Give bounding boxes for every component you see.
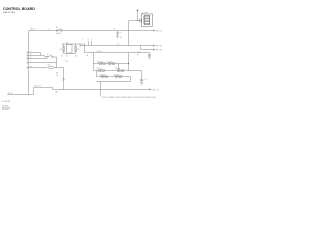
- svg-text:2W: 2W: [75, 55, 78, 57]
- resistor R6: [116, 68, 124, 71]
- svg-text:C1: C1: [120, 33, 122, 35]
- svg-text:(SEE NOTES): (SEE NOTES): [3, 12, 15, 14]
- svg-text:T: T: [83, 39, 84, 41]
- switch S1: [56, 27, 62, 35]
- wire stub v1: [88, 41, 90, 46]
- svg-text:L1: L1: [48, 29, 50, 31]
- svg-text:R2: R2: [77, 49, 79, 51]
- node junction: [137, 20, 138, 21]
- wire left bus vertical: [28, 31, 30, 95]
- pin arrow P6: [27, 67, 29, 69]
- svg-text:TB2: TB2: [55, 91, 58, 93]
- node arrow end mid2: [153, 49, 155, 51]
- svg-text:LS1: LS1: [48, 65, 51, 67]
- node arrow end top: [153, 30, 155, 32]
- wire ladder bottom drop: [130, 77, 132, 82]
- svg-text:R7 4.7K: R7 4.7K: [100, 75, 107, 77]
- svg-text:5 B: 5 B: [86, 55, 88, 57]
- node arrow end bottom: [149, 89, 151, 91]
- wire bottom raised: [34, 87, 53, 89]
- svg-text:R4 470: R4 470: [107, 61, 112, 63]
- svg-text:BK 18: BK 18: [8, 93, 12, 95]
- pin arrow P5: [27, 62, 29, 64]
- wire ladder left: [93, 53, 95, 71]
- node junction ladder: [128, 63, 129, 64]
- svg-text:.01: .01: [120, 37, 122, 39]
- wire bottom left: [7, 94, 34, 96]
- wire ladder right vert: [128, 64, 130, 71]
- resistor R2: [75, 44, 80, 57]
- svg-text:S1: S1: [56, 27, 58, 29]
- wire bottom main: [53, 89, 151, 91]
- svg-text:WH WHITE: WH WHITE: [2, 107, 10, 109]
- wire ladder mid stub: [118, 64, 120, 71]
- svg-text:R3 2.2K: R3 2.2K: [97, 61, 104, 63]
- wire top horizontal: [29, 30, 155, 32]
- switch S2: [48, 65, 54, 69]
- resistor R1: [60, 44, 65, 57]
- wire drop to bottom line: [100, 82, 102, 97]
- svg-text:T ST: T ST: [65, 61, 68, 63]
- wire stub right: [141, 46, 155, 50]
- resistor R5: [97, 68, 105, 71]
- wire ladder row3 left vert: [96, 71, 98, 77]
- wire pin3: [29, 58, 48, 60]
- svg-text:2 P: 2 P: [137, 54, 139, 56]
- node arrow mark: [63, 79, 65, 81]
- svg-text:BK: BK: [56, 73, 59, 75]
- pin arrow P4: [79, 45, 81, 47]
- wire pin2: [29, 53, 47, 57]
- node arrow end mid1: [153, 45, 155, 47]
- resistor R7: [100, 75, 108, 78]
- wire vertical right of row: [84, 44, 86, 53]
- wire cap drop: [141, 71, 143, 80]
- relay contact K1: [47, 54, 57, 58]
- svg-text:WH 2 10: WH 2 10: [153, 90, 159, 92]
- wire ladder bottom rail: [97, 81, 131, 83]
- svg-text:18: 18: [56, 75, 58, 77]
- svg-text:WH 1 E4: WH 1 E4: [156, 45, 162, 47]
- svg-text:C3: C3: [145, 79, 147, 81]
- svg-text:CONTROL BOARD: CONTROL BOARD: [3, 7, 35, 11]
- svg-text:WH 2 12: WH 2 12: [35, 86, 41, 88]
- ground G3: [140, 82, 143, 84]
- wire ladder right feed: [128, 53, 130, 64]
- svg-text:BL! WIPER: BL! WIPER: [2, 101, 11, 103]
- ground G1: [116, 36, 122, 39]
- wire mid-left row2: [29, 67, 48, 69]
- pin arrow P2: [27, 55, 29, 57]
- wire bottom fall: [52, 88, 54, 90]
- svg-text:R1: R1: [60, 49, 62, 51]
- ground G2: [148, 57, 151, 59]
- wire arrow stub up: [137, 11, 139, 21]
- resistor R4: [107, 61, 115, 64]
- svg-text:LEGEND: LEGEND: [2, 106, 9, 108]
- wire stub v2: [91, 41, 93, 46]
- relay coil U1: [66, 43, 73, 58]
- connector J1: [139, 14, 152, 26]
- svg-text:C: C: [91, 39, 93, 41]
- svg-text:U1: U1: [66, 56, 68, 58]
- svg-text:R5 10K: R5 10K: [97, 68, 103, 70]
- wire ladder row3: [97, 76, 131, 78]
- wire mid-left row1: [29, 62, 57, 64]
- svg-text:1 4: 1 4: [117, 43, 119, 45]
- svg-text:K1: K1: [66, 43, 68, 45]
- pin arrow P1: [27, 52, 29, 54]
- node arrow tip: [137, 9, 139, 11]
- pin arrow P3: [27, 58, 29, 60]
- resistor R8: [114, 75, 122, 78]
- node junction mid bus: [117, 44, 120, 47]
- svg-text:WH 1 E5: WH 1 E5: [156, 49, 162, 51]
- wire ladder top: [94, 63, 129, 65]
- svg-text:NOTE: CONNECT SHIELD DRAIN WIR: NOTE: CONNECT SHIELD DRAIN WIRE TO GROUN…: [102, 96, 157, 99]
- svg-text:K1: K1: [47, 54, 49, 56]
- svg-text:R: R: [88, 39, 90, 41]
- wire bus mid1: [81, 45, 155, 47]
- wire bus mid2: [85, 52, 149, 54]
- wire ladder mid: [94, 70, 142, 72]
- wire long drop: [63, 68, 65, 90]
- wire drop: [56, 63, 58, 68]
- wire drop to lower row: [56, 57, 58, 63]
- capacitor C2: [148, 53, 151, 58]
- svg-text:AUTO: AUTO: [57, 32, 62, 35]
- capacitor C3: [140, 79, 147, 82]
- wire component row top: [62, 43, 85, 45]
- svg-text:1K: 1K: [61, 55, 64, 57]
- wire pin1: [29, 52, 41, 54]
- capacitor C1: [116, 31, 121, 37]
- wire to drop: [54, 67, 64, 69]
- svg-text:C2: C2: [113, 29, 115, 31]
- wire bottom rise: [33, 88, 35, 95]
- wire component row bottom: [64, 53, 76, 55]
- svg-text:WH 1 14: WH 1 14: [156, 30, 162, 32]
- wire connector feed: [129, 20, 142, 22]
- svg-text:R8 220: R8 220: [114, 75, 119, 77]
- svg-text:BK 14: BK 14: [31, 29, 35, 31]
- wire vertical drop from connector wire: [128, 21, 130, 46]
- resistor R3: [97, 61, 105, 64]
